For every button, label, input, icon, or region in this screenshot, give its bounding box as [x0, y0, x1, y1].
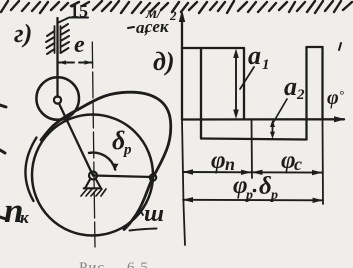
horizontal axis phi: [182, 118, 344, 120]
dimension a1 (double arrow): [235, 54, 237, 114]
svg-text:2: 2: [296, 87, 305, 103]
dimension e (rod axis to cam centerline): [58, 62, 93, 64]
return pulse right edge: [321, 47, 323, 120]
svg-text:φ: φ: [327, 87, 339, 109]
return pulse left edge: [305, 47, 307, 140]
cam centerline: [92, 42, 95, 247]
stray mark near 130,28: [128, 27, 134, 28]
follower lever (roller to pivot): [59, 104, 93, 176]
cam profile: [41, 92, 171, 229]
extension line below right edge: [322, 120, 325, 205]
svg-text:д): д): [153, 47, 175, 76]
svg-text:e: e: [74, 32, 85, 58]
svg-text:ш: ш: [144, 201, 164, 227]
cam base circle: [32, 115, 153, 236]
svg-text:φ: φ: [211, 147, 226, 174]
rotation direction arc n_k: [25, 138, 36, 202]
svg-text:р: р: [122, 142, 132, 158]
dimension line phi_s: [252, 171, 322, 173]
svg-text:к: к: [20, 208, 29, 227]
scan edge artifacts: [0, 105, 6, 107]
return pulse top: [307, 46, 323, 48]
roller (follower): [36, 77, 79, 120]
vertical axis a: [181, 14, 183, 120]
svg-text:°: °: [339, 88, 344, 102]
follower guide (hatched): [55, 26, 61, 53]
svg-text:р: р: [270, 188, 278, 203]
extension line phi_p/phi_s divider: [251, 120, 254, 179]
right roller (small circle on base circle): [150, 174, 156, 180]
svg-text:сек: сек: [145, 17, 169, 36]
pivot support triangle: [84, 179, 101, 189]
svg-text:1: 1: [262, 57, 270, 73]
svg-text:р: р: [245, 188, 253, 203]
dimension line phi_r=delta_r: [183, 199, 323, 202]
svg-text:2: 2: [169, 8, 177, 23]
pivot bearing: [89, 172, 97, 180]
dimension line phi_p: [183, 171, 251, 173]
angle delta_p arc with arrow: [89, 153, 115, 170]
negative pulse bottom line: [201, 139, 307, 140]
follower arm second position (pivot to right roller): [93, 176, 153, 178]
svg-text:с: с: [294, 154, 302, 174]
roller hub: [54, 96, 61, 103]
svg-text:г): г): [14, 19, 32, 48]
svg-text:п: п: [225, 154, 235, 174]
svg-text:а: а: [248, 41, 261, 70]
wall hatching (top edge): [1, 1, 352, 13]
svg-text:6.5: 6.5: [127, 260, 149, 268]
pulse 1 top line: [182, 47, 244, 49]
ground hatching under pivot: [81, 189, 106, 196]
follower rod: [56, 18, 58, 97]
svg-text:а: а: [284, 72, 297, 101]
dimension a2 (double arrow): [272, 123, 274, 135]
stray mark top right: [339, 43, 341, 50]
pulse 1 right edge: [243, 48, 245, 120]
pulse 1 inner vertical: [200, 48, 202, 139]
svg-text:Рис.: Рис.: [79, 260, 110, 268]
